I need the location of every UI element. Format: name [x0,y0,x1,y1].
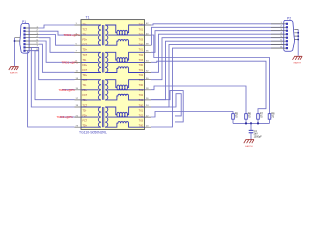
transformer unit 3 choke winding B [117,87,128,89]
svg-text:TCT: TCT [83,54,88,57]
svg-text:FCT: FCT [83,69,88,72]
svg-text:TD-: TD- [83,109,87,112]
T1 pin numbers right [146,23,149,127]
transformer unit 4 choke winding B [117,115,128,117]
transformer unit 1 secondary CT lead [108,34,145,36]
svg-text:TX2: TX2 [139,74,144,77]
wire termination branch B [151,94,181,116]
wire T1 pin y52.3 to P2 pin 3 [151,31,287,53]
wire T1 pin y107.0 to P2 pin 7 [151,45,287,107]
transformer unit 4 secondary coil [105,107,108,127]
transformer unit 3 choke winding A [105,80,144,88]
wire P1 pin 2 to T1 pin y35.1 [39,31,75,35]
wire T1 pin y79.7 to P2 pin 5 [151,38,287,80]
svg-text:FCT: FCT [83,119,88,122]
connector P1 shield pins [15,38,21,41]
svg-text:T1: T1 [86,16,90,20]
transformer unit 2 core [102,52,103,72]
svg-text:TD+: TD+ [83,49,88,52]
wire T1 CT3 to R6 [151,86,246,114]
transformer unit 1 primary coil [81,25,101,45]
connector P2 shield pins [294,29,298,39]
wire T1 pin y99.7 to P2 pin 6 [151,41,287,99]
wire P1 pin 1 to T1 pin y25.0 [39,25,75,28]
wire P1 pin 8 to T1 pin y99.7 [35,51,75,100]
transformer unit 2 secondary coil [105,52,108,72]
connector P2 pin stubs [271,24,287,48]
wire P1 pin 7 to T1 pin y79.7 [39,48,75,80]
svg-text:FCT: FCT [83,94,88,97]
svg-text:FD+: FD+ [83,64,88,67]
transformer unit 2 choke winding B [117,60,128,62]
transformer unit 2 secondary CT lead [108,61,145,63]
svg-text:TD+: TD+ [83,74,88,77]
wire P1 pin 5 to T1 pin y62.3 [39,41,75,62]
svg-text:TX2: TX2 [139,54,144,57]
svg-text:TX0: TX0 [139,84,144,87]
wire T1 CT4 to R5 [151,112,233,118]
T1 pin numbers left [76,23,79,127]
earth ground symbol cap [244,140,254,144]
transformer unit 3 secondary coil [105,80,108,100]
svg-text:TD-: TD- [83,59,87,62]
svg-text:TX1: TX1 [139,29,144,32]
svg-text:EARTH: EARTH [294,62,302,65]
resistor R8 [268,111,275,123]
transformer unit 2 choke winding A [105,52,144,60]
transformer unit 1 core [102,25,103,45]
connector P2 pin numbers [281,22,283,48]
wire P1 shield to earth [14,38,16,66]
transformer unit 3 primary coil [81,80,101,100]
wire T1 pin y25.0 to P2 pin 1 [151,24,287,25]
svg-text:TX1: TX1 [139,109,144,112]
svg-text:TX2: TX2 [139,94,144,97]
svg-text:TX3: TX3 [139,119,144,122]
svg-text:TX0: TX0 [139,64,144,67]
wire T1 pin y127.0 to P2 pin 8 [151,48,287,127]
T1 pins left [75,25,82,127]
resistor R5 [232,111,239,123]
connector P2 pin contacts [286,23,288,50]
transformer unit 1 choke winding B [117,33,128,35]
transformer unit 4 lower winding [105,122,144,128]
capacitor C4 [249,123,263,139]
earth ground symbol left [9,67,19,71]
svg-text:TRD2+@P1: TRD2+@P1 [59,88,76,92]
transformer unit 4 choke winding A [105,107,144,115]
wire net label stub CT3 [62,89,75,91]
svg-text:TCT: TCT [83,29,88,32]
svg-text:TX1: TX1 [139,69,144,72]
wire P1 pin 6 to T1 pin y72.3 [39,44,75,72]
svg-text:TG110-S050N2RL: TG110-S050N2RL [79,131,107,135]
wire T1 pin y72.3 to P2 pin 4 [151,34,287,72]
svg-text:EARTH: EARTH [10,71,18,74]
junctions P2 shield [297,32,299,40]
transformer T1 body [81,20,145,130]
svg-text:TX1: TX1 [139,49,144,52]
transformer unit 3 core [102,80,103,100]
svg-text:TD-: TD- [83,84,87,87]
svg-text:TX3: TX3 [139,39,144,42]
connector P1 pin stubs [25,28,39,51]
transformer unit 1 lower winding [105,40,144,46]
transformer unit 1 secondary coil [105,25,108,45]
T1 pin names left [83,24,88,128]
transformer unit 2 lower winding [105,67,144,73]
wire T1 CT2 to R7 [151,61,266,113]
transformer unit 4 core [102,107,103,127]
svg-text:TX3: TX3 [139,59,144,62]
svg-text:P2: P2 [287,17,291,21]
wire P1 pin 4 to T1 pin y52.3 [39,38,75,53]
resistor R6 [245,111,252,123]
transformer unit 3 lower winding [105,94,144,100]
connector P2 body [284,20,295,51]
junction shield left [14,40,16,42]
T1 pins right [145,25,152,127]
svg-text:FD+: FD+ [83,39,88,42]
earth ground symbol right [293,56,303,60]
transformer unit 4 primary coil [81,107,101,127]
wire T1 CT1 to R8 [151,35,270,114]
connector P1 pin contacts [23,27,25,52]
connector P1 body [20,23,29,53]
wire net label stub CT4 [60,116,75,118]
svg-text:EARTH: EARTH [245,145,253,148]
transformer unit 4 secondary CT lead [108,116,145,118]
wire P1 pin 3 to T1 pin y45.2 [39,35,75,46]
svg-text:TRD3+@P1: TRD3+@P1 [57,115,74,119]
connector P1 pin numbers [37,26,39,51]
transformer unit 1 choke winding A [105,25,144,33]
wire P2 shield to earth [297,29,299,55]
wire P1 branch to T1 pin y127 [28,51,75,127]
transformer unit 2 primary coil [81,52,101,72]
transformer unit 3 secondary CT lead [108,89,145,91]
wire termination branch A [151,91,183,122]
wire T1 pin y45.0 to P2 pin 2 [151,27,287,45]
wire termination rail [233,122,270,124]
resistor R7 [257,111,264,123]
T1 pin names right [139,24,144,128]
svg-text:1000pF: 1000pF [254,135,263,138]
junctions rail [245,122,259,124]
wire P1 branch to T1 pin y107 [31,48,74,108]
svg-text:P1: P1 [22,20,26,24]
